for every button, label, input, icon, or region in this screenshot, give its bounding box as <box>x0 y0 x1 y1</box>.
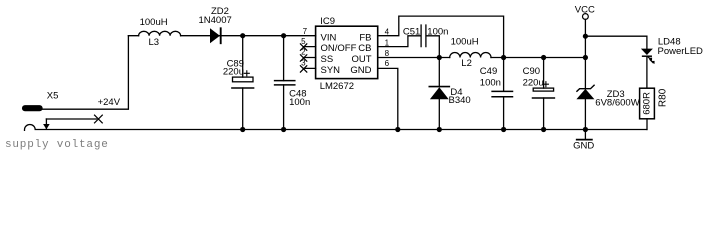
svg-text:100n: 100n <box>427 26 448 37</box>
svg-text:4: 4 <box>385 28 390 37</box>
svg-text:100uH: 100uH <box>140 17 168 28</box>
svg-text:VCC: VCC <box>575 5 595 16</box>
svg-text:SYN: SYN <box>321 65 341 76</box>
svg-text:L2: L2 <box>461 58 472 69</box>
svg-text:CB: CB <box>358 43 371 54</box>
svg-text:VIN: VIN <box>321 32 337 43</box>
svg-text:220u: 220u <box>523 77 544 88</box>
svg-text:6: 6 <box>385 59 390 68</box>
svg-text:R80: R80 <box>658 88 669 107</box>
svg-text:C49: C49 <box>480 66 497 77</box>
svg-text:OUT: OUT <box>351 54 371 65</box>
svg-text:B340: B340 <box>449 95 471 106</box>
svg-text:7: 7 <box>303 27 308 36</box>
svg-text:8: 8 <box>385 49 390 58</box>
svg-text:PowerLED: PowerLED <box>658 46 704 57</box>
svg-text:L3: L3 <box>149 37 160 48</box>
svg-text:ON/OFF: ON/OFF <box>321 43 357 54</box>
svg-text:100n: 100n <box>289 97 310 108</box>
svg-text:100n: 100n <box>480 77 501 88</box>
svg-text:1N4007: 1N4007 <box>199 15 232 26</box>
svg-text:C51: C51 <box>403 26 420 37</box>
svg-text:1: 1 <box>385 38 390 47</box>
svg-text:+24V: +24V <box>98 97 121 108</box>
svg-text:FB: FB <box>359 32 371 43</box>
svg-text:680R: 680R <box>642 92 653 115</box>
svg-text:5: 5 <box>301 37 306 46</box>
svg-text:6V8/600W: 6V8/600W <box>595 98 639 109</box>
svg-text:GND: GND <box>573 141 594 152</box>
svg-text:IC9: IC9 <box>320 16 335 27</box>
svg-text:220u: 220u <box>223 66 244 77</box>
svg-text:SS: SS <box>321 54 334 65</box>
svg-text:X5: X5 <box>47 90 59 101</box>
svg-text:2: 2 <box>301 48 306 57</box>
svg-text:GND: GND <box>350 65 371 76</box>
svg-text:supply voltage: supply voltage <box>5 139 109 151</box>
svg-text:3: 3 <box>301 59 306 68</box>
svg-text:C90: C90 <box>523 66 540 77</box>
svg-text:100uH: 100uH <box>451 36 479 47</box>
svg-text:LM2672: LM2672 <box>320 81 354 92</box>
